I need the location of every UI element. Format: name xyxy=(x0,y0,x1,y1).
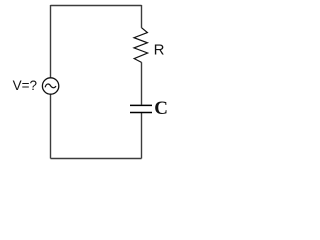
wire bottom xyxy=(51,158,142,160)
wire top xyxy=(51,5,142,7)
svg-text:R: R xyxy=(154,42,165,59)
resistor R xyxy=(134,28,148,63)
AC source V xyxy=(42,78,58,94)
wire right lower xyxy=(141,113,143,159)
svg-text:C: C xyxy=(154,98,168,119)
wire left upper xyxy=(50,5,52,78)
wire right middle xyxy=(141,62,143,105)
wire right upper xyxy=(141,5,143,28)
capacitor C xyxy=(130,105,152,112)
svg-text:V=?: V=? xyxy=(13,78,37,93)
wire left lower xyxy=(50,94,52,158)
